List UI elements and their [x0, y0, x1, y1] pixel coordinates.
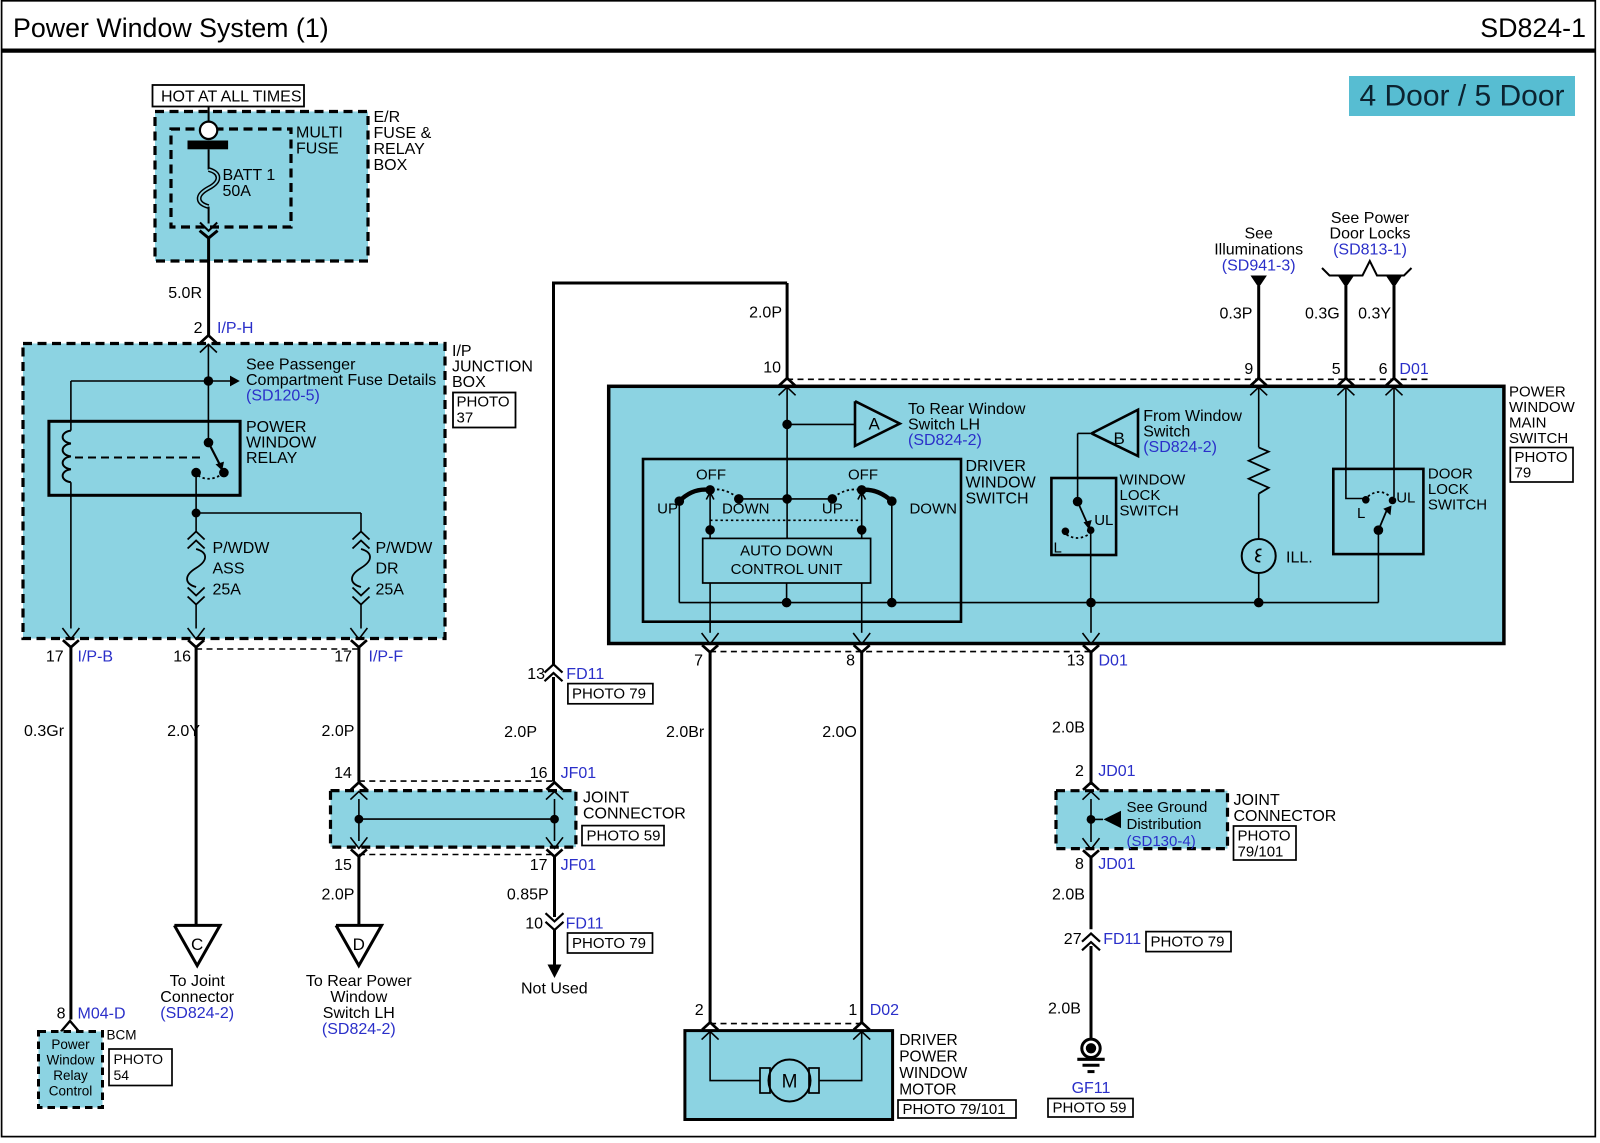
exit connector 17 I/P-B — [62, 628, 79, 647]
JOINT CONNECTOR JF01 box — [331, 791, 576, 848]
JF01 connector dashes bottom — [359, 854, 555, 856]
ADCU outputs down — [709, 583, 711, 633]
fuse BATT 1 50A (fusible link, double curve) — [199, 170, 218, 207]
svg-text:PHOTO 59: PHOTO 59 — [1053, 1100, 1127, 1117]
svg-text:DOWN: DOWN — [722, 501, 770, 518]
svg-text:I/P-H: I/P-H — [217, 320, 253, 337]
svg-text:To Joint: To Joint — [170, 973, 226, 990]
svg-text:AUTO DOWN: AUTO DOWN — [740, 543, 833, 560]
svg-text:D: D — [353, 935, 365, 954]
svg-text:WINDOW: WINDOW — [899, 1065, 967, 1082]
wire 0.3Gr to BCM — [69, 647, 72, 1019]
connector I/P-H entry chevrons — [200, 335, 217, 352]
wire 2.0B to ground — [1090, 946, 1093, 1038]
svg-text:SWITCH: SWITCH — [1509, 430, 1568, 447]
svg-text:0.3Y: 0.3Y — [1358, 306, 1391, 323]
entry pin 2 — [1083, 783, 1100, 800]
branch to DR fuse — [196, 512, 361, 514]
svg-text:Window: Window — [46, 1053, 94, 1068]
svg-text:Connector: Connector — [160, 989, 234, 1006]
svg-text:BOX: BOX — [452, 374, 486, 391]
badge 4 Door / 5 Door — [1349, 76, 1575, 116]
svg-text:FD11: FD11 — [566, 916, 604, 933]
svg-text:Not Used: Not Used — [521, 981, 588, 998]
svg-text:10: 10 — [525, 916, 543, 933]
svg-text:PHOTO: PHOTO — [1515, 449, 1568, 466]
svg-text:37: 37 — [457, 410, 474, 427]
svg-text:See: See — [1244, 226, 1273, 243]
svg-text:Illuminations: Illuminations — [1214, 242, 1303, 259]
label box PHOTO 37 — [453, 393, 516, 428]
entry pin 10 — [779, 378, 796, 395]
entry pin 1 — [853, 1022, 870, 1039]
wire 2.0B — [1090, 857, 1093, 929]
svg-text:2.0B: 2.0B — [1052, 886, 1085, 903]
resistor for illumination — [1258, 387, 1260, 447]
svg-text:I/P-F: I/P-F — [369, 649, 404, 666]
svg-text:SD824-1: SD824-1 — [1480, 13, 1586, 43]
wire 6 to door lock UL contact — [1393, 387, 1395, 497]
wire 2.0P from I/P-F to JF01 pin 14 — [357, 647, 360, 781]
ground GF11 — [1082, 1039, 1100, 1057]
branch wire to relay coil — [71, 380, 209, 382]
wire from HOT box to terminal circle — [208, 107, 210, 123]
wire 5 to door lock L contact — [1346, 387, 1364, 498]
svg-text:WINDOW: WINDOW — [246, 435, 317, 452]
svg-text:DRIVER: DRIVER — [899, 1032, 958, 1049]
wire 2.0Y to connector C — [195, 647, 198, 925]
exit connector 16 — [188, 628, 205, 647]
label box PHOTO 54 — [109, 1049, 172, 1086]
label box PHOTO 79 — [568, 684, 653, 704]
off-page triangle C — [174, 925, 220, 965]
svg-text:JD01: JD01 — [1098, 856, 1135, 873]
svg-text:SWITCH: SWITCH — [1428, 496, 1487, 513]
exit pin 15 — [350, 837, 367, 856]
wire 0.85P not used — [553, 857, 556, 918]
svg-text:PHOTO 79/101: PHOTO 79/101 — [903, 1101, 1006, 1118]
joint bus inside JF01 — [358, 799, 360, 841]
svg-text:Distribution: Distribution — [1127, 816, 1202, 833]
svg-text:13: 13 — [527, 666, 545, 683]
svg-text:L: L — [1054, 539, 1062, 556]
svg-text:2.0B: 2.0B — [1052, 719, 1085, 736]
svg-text:10: 10 — [763, 360, 781, 377]
svg-text:0.85P: 0.85P — [507, 886, 549, 903]
svg-text:See Passenger: See Passenger — [246, 357, 356, 374]
POWER WINDOW RELAY box — [49, 421, 240, 495]
svg-text:PHOTO 59: PHOTO 59 — [587, 828, 661, 845]
svg-text:To Rear Window: To Rear Window — [908, 401, 1026, 418]
arrow exit of MULTI FUSE box — [200, 223, 217, 231]
off-page triangle B — [1092, 410, 1138, 456]
junction node dot — [204, 376, 214, 386]
off-page triangle A — [855, 401, 900, 446]
wire fuse to inner box exit — [208, 207, 210, 224]
svg-text:P/WDW: P/WDW — [376, 540, 434, 557]
svg-text:0.3G: 0.3G — [1305, 306, 1340, 323]
svg-text:DRIVER: DRIVER — [966, 458, 1026, 475]
svg-text:M: M — [782, 1072, 798, 1093]
terminal circle — [200, 122, 217, 139]
svg-text:A: A — [869, 415, 881, 434]
relay output wire — [195, 473, 197, 513]
svg-text:Compartment Fuse Details: Compartment Fuse Details — [246, 372, 436, 389]
svg-text:25A: 25A — [213, 581, 242, 598]
svg-text:79/101: 79/101 — [1238, 844, 1284, 861]
junction dot to triangle A — [782, 420, 792, 430]
WINDOW LOCK SWITCH box — [1051, 478, 1116, 555]
svg-text:2.0B: 2.0B — [1048, 1001, 1081, 1018]
svg-text:2: 2 — [194, 320, 203, 337]
wire down to I/P-H connector, 5.0R — [207, 238, 210, 336]
svg-text:PHOTO 79: PHOTO 79 — [572, 935, 646, 952]
svg-text:(SD120-5): (SD120-5) — [246, 388, 320, 405]
svg-text:17: 17 — [46, 649, 64, 666]
title rule under header — [2, 48, 1596, 52]
exit pin 8 — [853, 633, 870, 652]
label box PHOTO 79/101 — [898, 1100, 1016, 1118]
svg-text:FD11: FD11 — [566, 666, 604, 683]
svg-text:To Rear Power: To Rear Power — [306, 973, 412, 990]
arrow to Not Used — [553, 930, 556, 965]
svg-text:From Window: From Window — [1143, 408, 1242, 425]
svg-text:WINDOW: WINDOW — [1120, 472, 1187, 489]
off-page arrow wire 0.3G pin 5 — [1338, 276, 1354, 288]
svg-text:MULTI: MULTI — [296, 125, 343, 142]
svg-text:M04-D: M04-D — [78, 1006, 126, 1023]
svg-text:Window: Window — [330, 989, 387, 1006]
svg-text:P/WDW: P/WDW — [213, 540, 271, 557]
entry pin 6 — [1386, 378, 1403, 395]
wire B to window lock switch — [1078, 432, 1092, 434]
bottom bus wire — [679, 602, 1378, 604]
svg-text:JOINT: JOINT — [583, 790, 629, 807]
svg-text:D02: D02 — [870, 1002, 899, 1019]
svg-text:25A: 25A — [376, 581, 405, 598]
AUTO DOWN CONTROL UNIT box — [703, 538, 871, 583]
svg-text:17: 17 — [334, 649, 352, 666]
door lock switch contacts — [1362, 496, 1370, 504]
off-page arrow wire 0.3P pin 9 — [1251, 276, 1267, 288]
svg-text:8: 8 — [1075, 856, 1084, 873]
svg-text:PHOTO 79: PHOTO 79 — [572, 685, 646, 702]
svg-text:(SD130-4): (SD130-4) — [1127, 833, 1196, 850]
I/P JUNCTION BOX (dashed) — [23, 344, 445, 639]
svg-text:0.3P: 0.3P — [1219, 306, 1252, 323]
svg-text:0.3Gr: 0.3Gr — [24, 723, 65, 740]
svg-text:PHOTO: PHOTO — [114, 1051, 164, 1067]
svg-text:RELAY: RELAY — [246, 450, 298, 467]
svg-text:PHOTO: PHOTO — [1238, 828, 1291, 845]
arrow: see passenger compartment fuse details — [208, 380, 230, 382]
svg-text:(SD824-2): (SD824-2) — [908, 432, 982, 449]
JF01 connector dashes top — [359, 780, 555, 782]
svg-text:D01: D01 — [1099, 653, 1128, 670]
svg-text:CONNECTOR: CONNECTOR — [583, 806, 686, 823]
svg-text:17: 17 — [530, 857, 548, 874]
svg-text:2.0Y: 2.0Y — [167, 723, 200, 740]
svg-text:LOCK: LOCK — [1120, 487, 1161, 504]
label box PHOTO 79 — [1510, 448, 1573, 483]
svg-text:ASS: ASS — [213, 561, 245, 578]
svg-text:UL: UL — [1396, 490, 1415, 507]
label box PHOTO 59 — [1048, 1099, 1133, 1118]
ground distribution node — [1090, 799, 1092, 842]
svg-text:Door Locks: Door Locks — [1330, 226, 1411, 243]
svg-text:See Ground: See Ground — [1127, 799, 1208, 816]
svg-text:FUSE &: FUSE & — [374, 125, 432, 142]
svg-text:Switch LH: Switch LH — [908, 417, 980, 434]
fork into BCM box — [61, 1021, 79, 1032]
svg-text:Switch LH: Switch LH — [323, 1005, 395, 1022]
svg-text:Switch: Switch — [1143, 424, 1190, 441]
svg-text:2.0P: 2.0P — [321, 723, 354, 740]
svg-text:27: 27 — [1064, 931, 1082, 948]
svg-text:E/R: E/R — [374, 109, 401, 126]
E/R FUSE & RELAY BOX (dashed) — [155, 112, 368, 262]
relay switch — [204, 438, 214, 448]
svg-text:Control: Control — [49, 1084, 93, 1099]
illumination lamp ILL. — [1258, 494, 1260, 539]
svg-text:79: 79 — [1515, 465, 1532, 482]
svg-text:(SD813-1): (SD813-1) — [1333, 241, 1407, 258]
svg-text:RELAY: RELAY — [374, 141, 426, 158]
svg-text:14: 14 — [334, 765, 352, 782]
wire 2.0B from 13 D01 — [1090, 652, 1093, 785]
entry pin 5 — [1337, 378, 1354, 395]
svg-text:SWITCH: SWITCH — [1120, 503, 1179, 520]
svg-text:(SD824-2): (SD824-2) — [322, 1021, 396, 1038]
svg-text:(SD941-3): (SD941-3) — [1222, 257, 1296, 274]
svg-text:2.0O: 2.0O — [822, 724, 857, 741]
exit pin 13 D01 — [1083, 633, 1100, 652]
D01 connector dashes along box top — [787, 378, 1430, 380]
inline connector 13 FD11 — [545, 664, 563, 681]
svg-text:8: 8 — [846, 653, 855, 670]
DRIVER WINDOW SWITCH box — [643, 459, 961, 622]
exit pin 8 JD01 — [1083, 838, 1100, 857]
svg-text:9: 9 — [1244, 361, 1253, 378]
switch common rail — [739, 498, 833, 500]
svg-text:CONNECTOR: CONNECTOR — [1234, 808, 1337, 825]
junction dot below relay — [192, 509, 201, 518]
svg-text:PHOTO: PHOTO — [457, 394, 510, 411]
svg-text:5: 5 — [1332, 361, 1341, 378]
svg-text:L: L — [1357, 505, 1365, 522]
svg-text:POWER: POWER — [899, 1049, 958, 1066]
svg-text:OFF: OFF — [696, 467, 726, 484]
svg-text:UL: UL — [1094, 512, 1113, 529]
svg-text:2.0P: 2.0P — [504, 724, 537, 741]
svg-text:6: 6 — [1379, 361, 1388, 378]
entry pin 9 — [1250, 378, 1267, 395]
svg-text:8: 8 — [57, 1006, 66, 1023]
wire bar to fuse — [208, 149, 210, 169]
svg-text:16: 16 — [530, 765, 548, 782]
connector dashes between 16 and 17 — [196, 648, 359, 650]
JOINT CONNECTOR JD01 box — [1056, 791, 1228, 849]
auto-down link left — [709, 493, 711, 538]
UP contact riser to bus — [678, 501, 680, 602]
D02 connector dashes — [710, 1023, 862, 1025]
exit pin 7 — [702, 633, 719, 652]
svg-text:B: B — [1114, 429, 1125, 448]
auto-down link right — [861, 493, 863, 538]
brace over 5 and 6 — [1322, 261, 1412, 276]
wire 2.0O — [860, 652, 863, 1024]
off-page arrow wire 0.3Y pin 6 D01 — [1386, 276, 1402, 288]
DOWN contact riser to bus — [891, 501, 893, 602]
multifuse bus bar — [188, 141, 229, 150]
mechanical linkage dotted — [710, 519, 862, 521]
svg-text:Relay: Relay — [53, 1068, 88, 1083]
D01 connector dashes bottom — [710, 651, 1091, 653]
MULTI FUSE inner dashed box — [171, 129, 291, 227]
svg-text:2.0P: 2.0P — [321, 886, 354, 903]
svg-text:OFF: OFF — [848, 467, 878, 484]
exit pin 17 JF01 — [546, 837, 563, 856]
svg-text:D01: D01 — [1399, 361, 1428, 378]
entry pin 16 JF01 — [546, 782, 563, 799]
svg-text:WINDOW: WINDOW — [966, 474, 1037, 491]
svg-text:Power Window System (1): Power Window System (1) — [13, 13, 329, 43]
svg-text:DR: DR — [376, 561, 399, 578]
svg-text:BCM: BCM — [107, 1028, 137, 1043]
BCM dashed box: Power Window Relay Control — [39, 1032, 103, 1108]
svg-text:7: 7 — [694, 653, 703, 670]
svg-text:CONTROL UNIT: CONTROL UNIT — [731, 561, 843, 578]
label box PHOTO 79 — [568, 933, 653, 953]
svg-text:PHOTO 79: PHOTO 79 — [1151, 933, 1225, 950]
svg-text:GF11: GF11 — [1072, 1080, 1111, 1097]
svg-text:2: 2 — [695, 1002, 704, 1019]
fuse P/WDW DR 25A — [353, 532, 370, 540]
label box PHOTO 79 — [1146, 932, 1231, 952]
coil wire down to I/P-B — [70, 482, 72, 628]
off-page triangle D — [336, 925, 382, 965]
svg-text:I/P-B: I/P-B — [78, 649, 114, 666]
svg-text:JD01: JD01 — [1098, 763, 1135, 780]
svg-text:ILL.: ILL. — [1286, 550, 1313, 567]
fuse P/WDW ASS 25A — [188, 532, 205, 540]
svg-text:15: 15 — [334, 857, 352, 874]
svg-text:2.0Br: 2.0Br — [666, 724, 705, 741]
wire into junction node — [207, 344, 209, 442]
svg-text:Power: Power — [51, 1037, 90, 1052]
svg-text:See Power: See Power — [1331, 210, 1410, 227]
POWER WINDOW MAIN SWITCH box — [609, 386, 1504, 643]
relay coil — [63, 431, 71, 483]
inline connector 27 FD11 — [1082, 934, 1100, 951]
svg-text:BOX: BOX — [374, 157, 408, 174]
entry pin 14 — [350, 782, 367, 799]
wire 2.0P to triangle D — [357, 857, 360, 926]
svg-text:13: 13 — [1067, 653, 1085, 670]
svg-text:FUSE: FUSE — [296, 141, 339, 158]
DRIVER POWER WINDOW MOTOR box — [685, 1031, 893, 1120]
svg-text:JF01: JF01 — [561, 857, 597, 874]
svg-text:(SD824-2): (SD824-2) — [160, 1005, 234, 1022]
wire to JF01 pin 16 — [552, 677, 555, 782]
exit connector 17 I/P-F — [350, 628, 367, 647]
wire 2.0Br — [709, 652, 712, 1024]
DOOR LOCK SWITCH box — [1333, 469, 1423, 554]
svg-text:JF01: JF01 — [561, 765, 597, 782]
motor M — [760, 1068, 770, 1093]
svg-text:2.0P: 2.0P — [749, 305, 782, 322]
svg-text:(SD824-2): (SD824-2) — [1143, 439, 1217, 456]
svg-text:BATT 1: BATT 1 — [223, 167, 276, 184]
wire to ASS fuse — [195, 513, 197, 532]
window lock output wire — [1090, 530, 1092, 602]
svg-text:2: 2 — [1075, 763, 1084, 780]
svg-text:4 Door / 5 Door: 4 Door / 5 Door — [1359, 80, 1564, 113]
svg-text:JOINT: JOINT — [1234, 792, 1280, 809]
svg-text:1: 1 — [848, 1002, 857, 1019]
svg-text:C: C — [191, 935, 203, 954]
inline connector 10 FD11 (down) — [546, 913, 564, 930]
label box HOT AT ALL TIMES — [153, 85, 305, 107]
svg-text:54: 54 — [114, 1067, 130, 1083]
svg-text:50A: 50A — [223, 183, 252, 200]
svg-text:DOWN: DOWN — [909, 501, 957, 518]
relay linkage dashed line — [75, 457, 202, 459]
window lock switch contacts — [1073, 497, 1083, 507]
svg-text:5.0R: 5.0R — [168, 285, 202, 302]
svg-text:MOTOR: MOTOR — [899, 1082, 956, 1099]
svg-text:FD11: FD11 — [1103, 931, 1141, 948]
wire 10 into switch — [786, 387, 788, 499]
svg-text:POWER: POWER — [246, 419, 306, 436]
svg-text:HOT AT ALL TIMES: HOT AT ALL TIMES — [161, 89, 302, 106]
entry pin 2 — [702, 1022, 719, 1039]
svg-text:SWITCH: SWITCH — [966, 491, 1029, 508]
wire corner 2.0P to main switch pin 10 — [554, 282, 788, 285]
wires to motor brushes — [710, 1032, 760, 1081]
svg-text:16: 16 — [173, 649, 191, 666]
